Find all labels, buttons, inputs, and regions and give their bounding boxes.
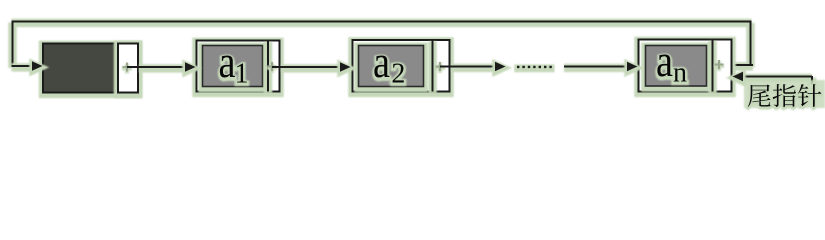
pointer origin mark an bbox=[714, 61, 724, 71]
node a2 outer box bbox=[353, 41, 450, 93]
label a1 bbox=[219, 37, 249, 90]
head node (data field, dark) bbox=[43, 45, 138, 94]
node a1 data field bbox=[203, 47, 263, 88]
node an pointer divider bbox=[708, 41, 717, 93]
label 尾指针 (tail pointer) bbox=[744, 80, 825, 108]
arrowhead into an bbox=[627, 63, 638, 73]
arrowhead into a1 bbox=[185, 64, 196, 74]
svg-text:n: n bbox=[673, 57, 687, 88]
tail pointer arrowhead bbox=[733, 73, 744, 83]
wire into head node bbox=[12, 63, 34, 72]
label a2 bbox=[373, 37, 405, 90]
arrowhead into a2 bbox=[340, 64, 351, 74]
head node pointer field bbox=[118, 45, 138, 94]
ellipsis dots bbox=[517, 67, 552, 69]
wire a2 toward ellipsis bbox=[451, 64, 495, 73]
svg-text:2: 2 bbox=[391, 58, 405, 89]
arrowhead into head node bbox=[32, 63, 43, 73]
node a2 pointer divider bbox=[428, 41, 437, 93]
label an bbox=[656, 36, 687, 89]
node a2 data field bbox=[359, 47, 424, 88]
wire head to a1 bbox=[139, 64, 185, 73]
svg-text:a: a bbox=[373, 36, 390, 87]
tail pointer wire bbox=[742, 77, 812, 85]
node an data field bbox=[646, 47, 707, 88]
wire circular link (a_n back to head) bbox=[12, 22, 754, 68]
svg-text:1: 1 bbox=[235, 58, 249, 89]
pointer origin mark a1 bbox=[267, 63, 277, 73]
arrowhead before ellipsis bbox=[495, 63, 506, 73]
node a1 pointer divider bbox=[264, 42, 273, 93]
node an outer box bbox=[639, 41, 732, 93]
svg-text:a: a bbox=[219, 36, 236, 87]
wire ellipsis to an bbox=[564, 64, 626, 73]
pointer origin mark a2 bbox=[435, 63, 445, 73]
wire a1 to a2 bbox=[281, 64, 340, 73]
node a1 outer box bbox=[197, 42, 280, 93]
pointer origin mark head bbox=[122, 63, 132, 73]
svg-text:a: a bbox=[656, 35, 673, 86]
